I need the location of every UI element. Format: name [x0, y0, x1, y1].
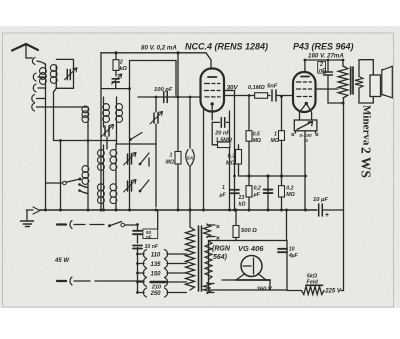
svg-text:Minerva: Minerva [361, 105, 373, 146]
svg-text:NCC.4 (RENS 1284): NCC.4 (RENS 1284) [185, 42, 268, 52]
svg-text:kΩ: kΩ [120, 66, 128, 72]
svg-text:160 V. 27mA: 160 V. 27mA [308, 53, 344, 60]
svg-text:✕: ✕ [216, 224, 221, 231]
svg-text:225 V: 225 V [324, 288, 342, 294]
svg-text:0,2: 0,2 [254, 186, 261, 192]
svg-text:150: 150 [150, 271, 161, 277]
svg-text:MΩ: MΩ [253, 138, 261, 144]
svg-text:110: 110 [151, 252, 161, 258]
svg-text:nF: nF [146, 234, 152, 239]
svg-text:23: 23 [238, 195, 245, 201]
svg-text:564): 564) [213, 254, 228, 261]
svg-text:45 W: 45 W [54, 258, 70, 264]
svg-text:80 V. 0,2 mA: 80 V. 0,2 mA [141, 45, 177, 52]
svg-text:MΩ: MΩ [271, 138, 279, 144]
svg-text:360 V: 360 V [257, 287, 273, 293]
svg-text:0,5: 0,5 [253, 132, 260, 138]
svg-text:✕: ✕ [291, 132, 296, 139]
svg-text:MΩ: MΩ [286, 192, 294, 198]
svg-text:10: 10 [289, 247, 295, 253]
svg-text:MΩ: MΩ [226, 161, 236, 167]
svg-text:1: 1 [170, 153, 173, 159]
svg-text:5A: 5A [187, 156, 194, 162]
svg-text:VG 406: VG 406 [238, 244, 264, 253]
svg-text:P43 (RES 964): P43 (RES 964) [293, 42, 354, 52]
svg-text:500 Ω: 500 Ω [241, 228, 257, 234]
svg-text:210: 210 [151, 284, 161, 290]
svg-text:5kΩ: 5kΩ [307, 274, 318, 280]
svg-text:µF: µF [219, 193, 227, 199]
svg-text:4µF: 4µF [288, 253, 299, 259]
svg-text:135: 135 [150, 262, 161, 268]
svg-text:0,1MΩ: 0,1MΩ [248, 85, 265, 91]
svg-text:MΩ: MΩ [166, 160, 174, 166]
svg-text:1: 1 [274, 132, 277, 138]
svg-text:2: 2 [119, 60, 123, 66]
svg-text:kΩ: kΩ [239, 202, 246, 208]
svg-text:10 µF: 10 µF [313, 197, 328, 203]
svg-text:100 pF: 100 pF [154, 87, 173, 93]
svg-text:250: 250 [149, 291, 161, 297]
svg-text:µF: µF [253, 192, 261, 198]
svg-text:0,2: 0,2 [286, 186, 293, 192]
svg-text:+: + [325, 212, 329, 219]
svg-text:1: 1 [222, 185, 225, 191]
svg-text:20 nF: 20 nF [214, 130, 230, 136]
svg-text:✕: ✕ [315, 132, 320, 139]
svg-text:2 WS: 2 WS [359, 147, 374, 178]
svg-text:(RGN: (RGN [212, 246, 231, 253]
svg-text:5nF: 5nF [267, 84, 278, 90]
svg-text:0,3: 0,3 [228, 154, 236, 160]
